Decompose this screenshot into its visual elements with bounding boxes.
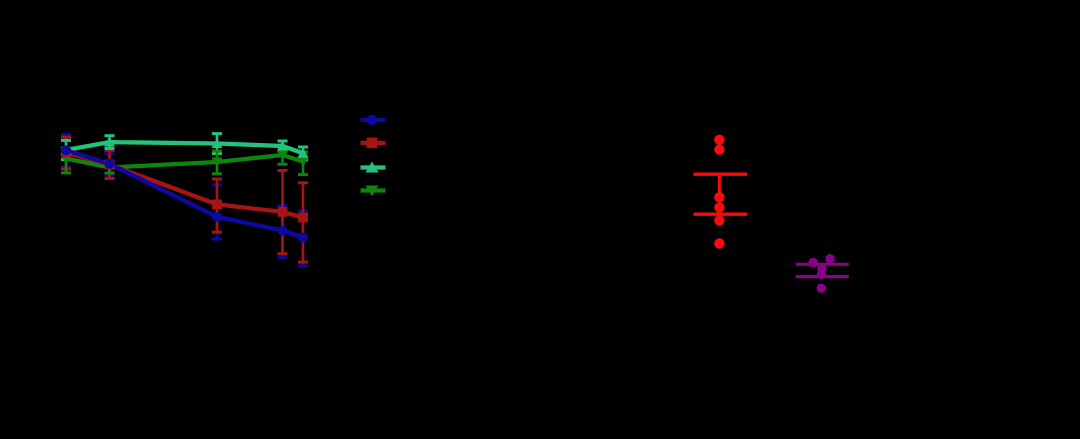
red scatter dot 5 (714, 215, 724, 225)
errorbar red pt5 (298, 183, 308, 262)
errorbar springgreen pt3 (212, 134, 222, 154)
red mean bar top (694, 172, 747, 175)
line blue series (66, 150, 303, 237)
marker springgreen pt5 (298, 148, 309, 158)
legend marker darkgreen triangle-down (366, 186, 379, 197)
legend line darkgreen (361, 188, 386, 192)
purple mean bar bottom (796, 275, 849, 278)
errorbar blue pt4 (278, 206, 288, 258)
legend line blue (361, 118, 386, 122)
errorbar springgreen pt4 (278, 141, 288, 151)
marker blue pt2 (105, 159, 115, 169)
errorbar red pt2 (105, 150, 115, 178)
legend marker red square (367, 138, 378, 149)
errorbar red pt4 (278, 171, 288, 254)
marker red pt5 (298, 213, 308, 223)
line darkgreen series (66, 155, 303, 168)
marker blue pt4 (278, 226, 288, 236)
marker blue pt5 (298, 233, 308, 243)
purple scatter dot 1 (809, 258, 818, 267)
red connector (718, 174, 721, 214)
marker darkgreen pt4 (277, 151, 288, 161)
errorbar darkgreen pt3 (212, 151, 222, 174)
legend line red (361, 141, 386, 145)
marker red pt1 (61, 148, 71, 158)
errorbar darkgreen pt4 (278, 147, 288, 164)
legend marker springgreen triangle-up (366, 161, 379, 172)
marker darkgreen pt5 (298, 157, 309, 167)
red scatter dot 2 (714, 144, 724, 154)
marker springgreen pt2 (104, 137, 115, 147)
purple connector (821, 264, 824, 276)
purple scatter dot 2 (825, 254, 834, 263)
purple mean bar top (796, 263, 849, 266)
marker springgreen pt1 (61, 145, 72, 155)
errorbar springgreen pt2 (105, 136, 115, 149)
errorbar springgreen pt5 (298, 147, 308, 160)
marker blue pt1 (61, 145, 71, 155)
marker blue pt3 (212, 212, 222, 222)
red scatter dot 3 (714, 192, 724, 202)
line red series (66, 153, 303, 218)
marker red pt2 (105, 160, 115, 170)
red mean bar bottom (694, 212, 747, 215)
errorbar blue pt5 (298, 211, 308, 266)
marker red pt3 (212, 200, 222, 210)
marker darkgreen pt3 (212, 158, 223, 168)
errorbar red pt1 (61, 137, 71, 169)
legend marker blue circle (367, 115, 377, 125)
errorbar springgreen pt1 (61, 140, 71, 159)
errorbar darkgreen pt5 (298, 152, 308, 175)
purple scatter dot 5 (817, 284, 826, 293)
errorbar darkgreen pt2 (105, 162, 115, 173)
marker springgreen pt4 (277, 141, 288, 151)
red scatter dot 6 (714, 238, 724, 248)
marker darkgreen pt2 (104, 163, 115, 173)
errorbar darkgreen pt1 (61, 148, 71, 173)
errorbar blue pt3 (212, 185, 222, 239)
red scatter dot 1 (714, 135, 724, 145)
red scatter dot 4 (714, 202, 724, 212)
line springgreen series (66, 142, 303, 153)
purple scatter dot 3 (817, 264, 826, 273)
errorbar blue pt1 (61, 134, 71, 167)
legend line springgreen (361, 165, 386, 169)
marker red pt4 (278, 207, 288, 217)
errorbar red pt3 (212, 179, 222, 232)
purple scatter dot 4 (817, 270, 826, 279)
marker darkgreen pt1 (61, 154, 72, 164)
errorbar blue pt2 (105, 154, 115, 176)
marker springgreen pt3 (212, 138, 223, 148)
